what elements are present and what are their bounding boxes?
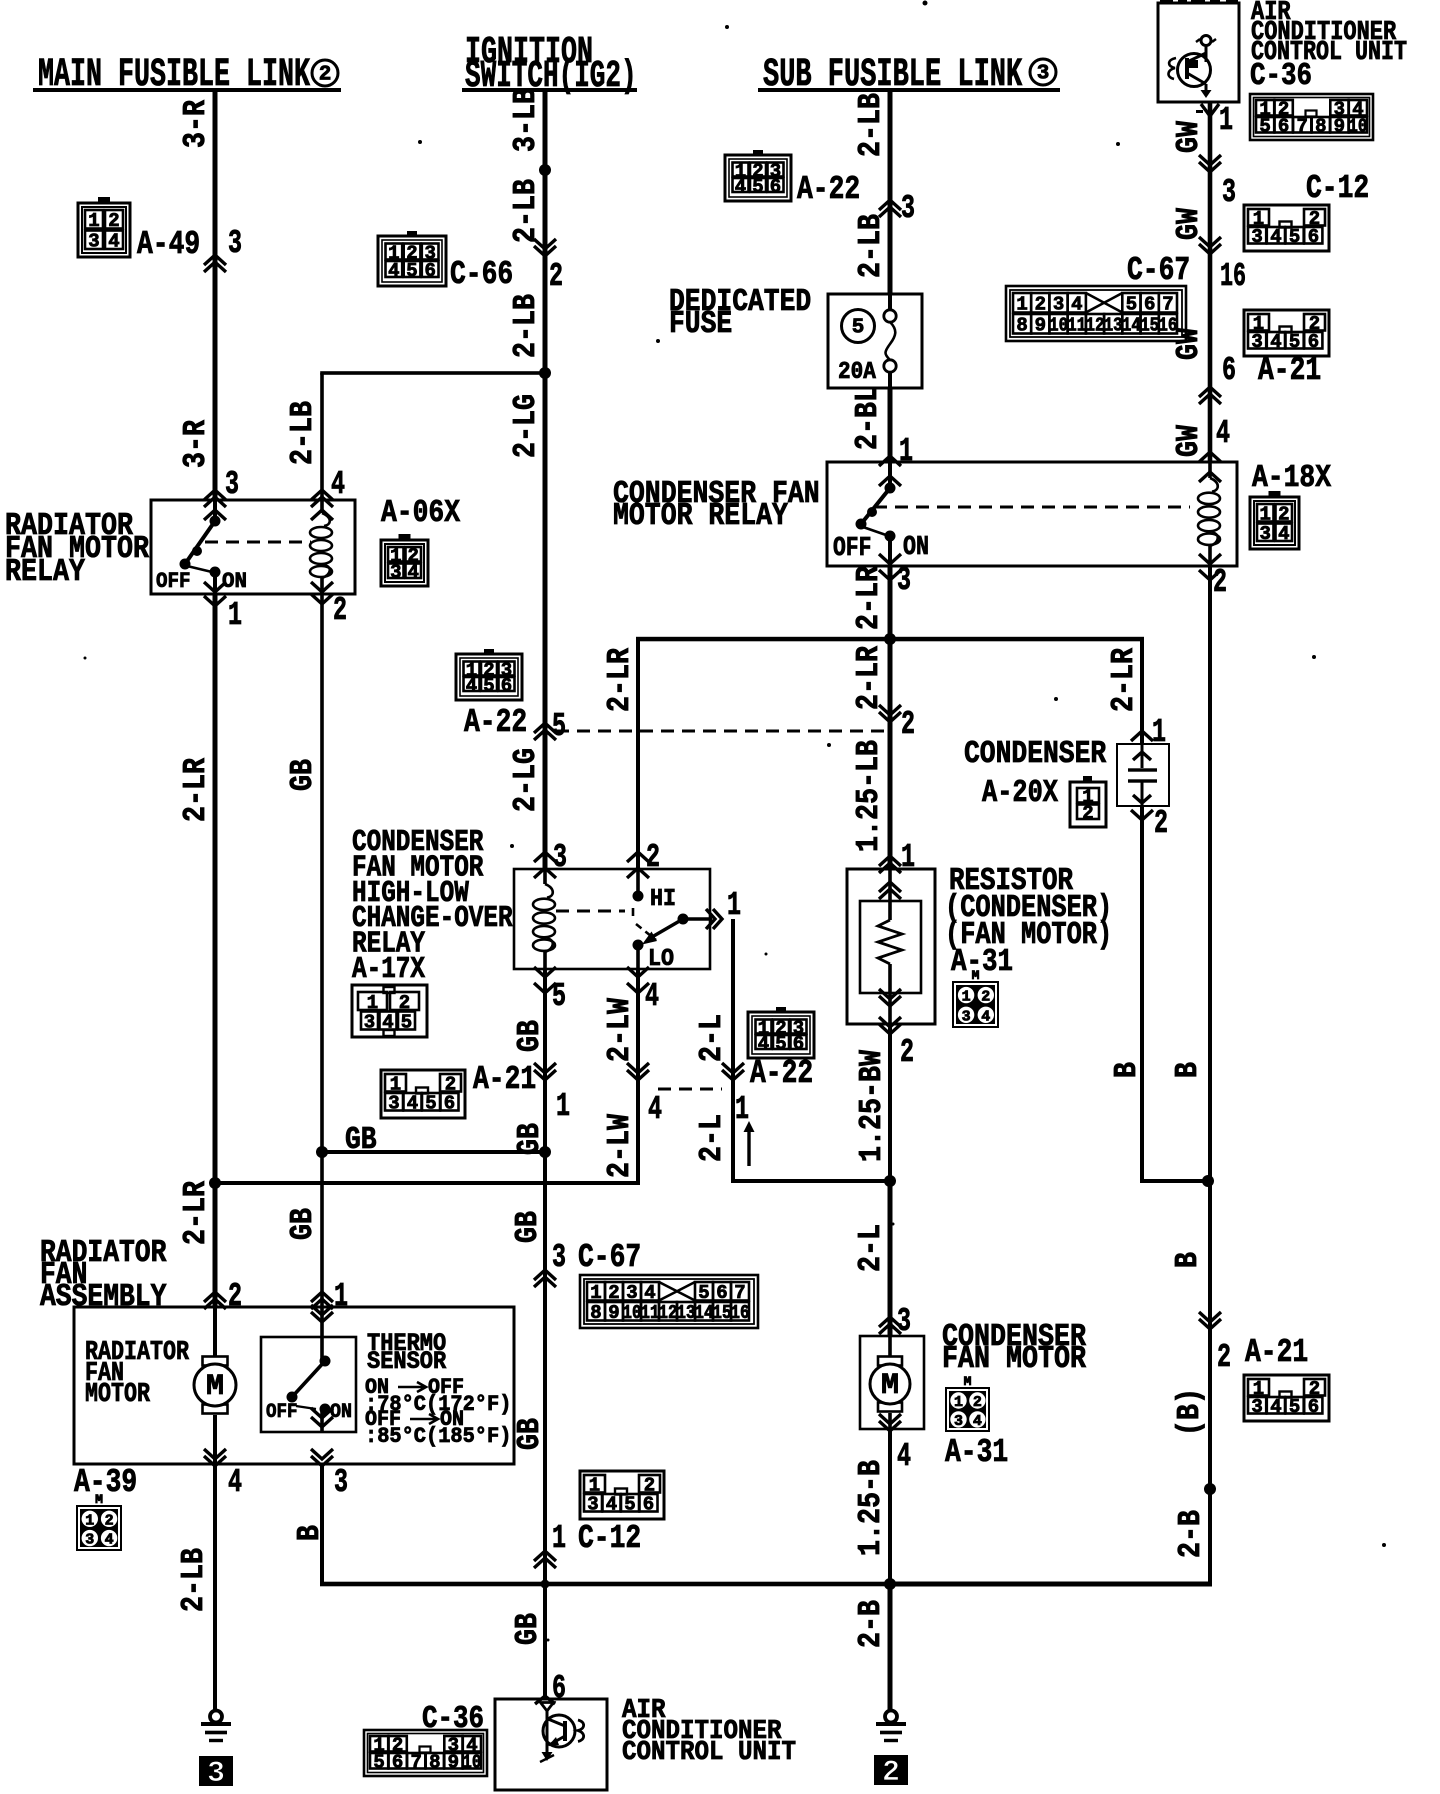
svg-text:2: 2 <box>1082 803 1093 825</box>
svg-text:4: 4 <box>981 1008 990 1025</box>
svg-text:4: 4 <box>735 176 746 198</box>
capacitor CONDENSER A-20X <box>1117 744 1169 806</box>
pin 1 high-low relay output <box>706 886 741 929</box>
svg-text:11: 11 <box>1067 315 1086 337</box>
dashed tie line A-22 pin5 to pin2 <box>556 730 884 733</box>
resistor label block <box>945 863 1112 980</box>
svg-text:8: 8 <box>429 1752 440 1774</box>
svg-text:14: 14 <box>1122 315 1141 337</box>
svg-text:16: 16 <box>1220 257 1246 295</box>
svg-text:5: 5 <box>775 1033 786 1055</box>
svg-text:12: 12 <box>659 1302 678 1324</box>
connector A-49 <box>78 197 200 263</box>
svg-text:3: 3 <box>390 562 401 584</box>
svg-text:9: 9 <box>608 1302 619 1324</box>
svg-text:A-17X: A-17X <box>352 953 426 987</box>
pin 2 at A-22 dashed tie <box>879 705 915 743</box>
wire GW from AC unit down to condenser relay pin 4 <box>1208 102 1213 462</box>
svg-text:2-LG: 2-LG <box>508 394 544 458</box>
svg-text:1: 1 <box>552 1519 566 1557</box>
pin 4 radiator fan relay <box>311 465 345 520</box>
svg-text:C-66: C-66 <box>450 255 513 293</box>
unit AIR CONDITIONER CONTROL UNIT bottom box <box>495 1699 607 1790</box>
svg-text:2: 2 <box>882 1756 900 1790</box>
svg-text:4: 4 <box>758 1033 769 1055</box>
svg-text:2-B: 2-B <box>853 1600 889 1648</box>
svg-text:MOTOR: MOTOR <box>85 1380 151 1410</box>
svg-text:3: 3 <box>962 1008 971 1025</box>
svg-text:HI: HI <box>650 886 676 913</box>
svg-text:6: 6 <box>1278 116 1289 138</box>
svg-text:B: B <box>292 1525 328 1541</box>
svg-text:2-LW: 2-LW <box>602 998 638 1062</box>
svg-text:2: 2 <box>1213 563 1227 601</box>
wire 2-LR from distribution to high-low relay pin 2 <box>636 637 1144 869</box>
junction dot B bus <box>1202 1175 1214 1187</box>
svg-text:5: 5 <box>1289 331 1300 353</box>
high-low relay label block <box>352 826 513 987</box>
svg-text:2-L: 2-L <box>694 1114 730 1162</box>
svg-text:5: 5 <box>1126 294 1137 316</box>
svg-text:13: 13 <box>677 1302 696 1324</box>
svg-text:1: 1 <box>954 1394 963 1411</box>
svg-text:C-67: C-67 <box>578 1238 641 1276</box>
node IGNITION SWITCH(IG2) title <box>465 31 637 98</box>
page reference 2 <box>874 1755 908 1785</box>
svg-text:GW: GW <box>1171 208 1207 240</box>
svg-text:GW: GW <box>1171 425 1207 457</box>
pin 6 at A-21 top <box>1199 351 1236 404</box>
svg-text:6: 6 <box>444 1093 455 1115</box>
svg-text:2-L: 2-L <box>853 1224 889 1272</box>
svg-text:5: 5 <box>852 317 865 340</box>
svg-text:4: 4 <box>645 977 659 1015</box>
svg-text:OFF: OFF <box>266 1401 298 1424</box>
connector A-17X <box>352 985 427 1037</box>
svg-text:3: 3 <box>364 1011 375 1033</box>
svg-text:4: 4 <box>228 1463 242 1501</box>
AC control unit top transistor symbol <box>1168 36 1216 99</box>
wire 2-B to ground <box>888 1584 893 1710</box>
svg-text:C-67: C-67 <box>1127 251 1190 289</box>
pin 6 air conditioner control unit <box>535 1669 566 1707</box>
svg-text:2-LR: 2-LR <box>1106 648 1142 712</box>
connector A-21 bottom <box>1244 1333 1329 1421</box>
junction dot ignition splice <box>539 164 551 176</box>
svg-text:16: 16 <box>731 1302 750 1324</box>
node SUB FUSIBLE LINK 3 title <box>763 52 1056 97</box>
thermo sensor box <box>261 1337 356 1432</box>
node MAIN FUSIBLE LINK underline <box>33 88 341 92</box>
svg-text:10: 10 <box>1049 315 1068 337</box>
wire 3-R from MAIN FUSIBLE LINK to radiator fan relay pin 3 <box>213 90 218 500</box>
svg-text:4: 4 <box>897 1437 911 1475</box>
svg-text:4: 4 <box>331 465 345 503</box>
svg-text:5: 5 <box>483 675 494 697</box>
svg-text:LO: LO <box>648 946 674 973</box>
svg-text:6: 6 <box>1308 1396 1319 1418</box>
svg-text::85°C(185°F): :85°C(185°F) <box>365 1424 511 1449</box>
svg-text:5: 5 <box>1259 116 1270 138</box>
pin 5 high-low relay <box>534 967 566 1015</box>
svg-text:3: 3 <box>1259 523 1270 545</box>
svg-text:A-06X: A-06X <box>381 495 461 531</box>
svg-text:10: 10 <box>1348 116 1367 138</box>
svg-text:3-R: 3-R <box>178 100 214 148</box>
svg-text:A-39: A-39 <box>74 1463 137 1501</box>
wire 2-LB sub fusible link down <box>888 90 893 294</box>
svg-text:B: B <box>1170 1252 1206 1268</box>
svg-text:3-LB: 3-LB <box>508 88 544 152</box>
svg-text:5: 5 <box>401 1011 412 1033</box>
svg-text:M: M <box>964 1374 972 1389</box>
svg-text:3: 3 <box>897 1302 911 1340</box>
svg-text:A-49: A-49 <box>137 225 200 263</box>
svg-text:3: 3 <box>334 1463 348 1501</box>
unit RADIATOR FAN ASSEMBLY label <box>40 1235 166 1315</box>
svg-text:6: 6 <box>501 675 512 697</box>
connector A-31 bottom <box>945 1374 1008 1471</box>
svg-text:CONDENSER: CONDENSER <box>964 736 1106 772</box>
relay CONDENSER FAN MOTOR RELAY label <box>613 476 820 534</box>
svg-text:M: M <box>972 968 980 983</box>
svg-text:GB: GB <box>345 1122 377 1158</box>
svg-text:1: 1 <box>1219 101 1233 139</box>
radiator relay dashed actuation line <box>205 541 311 544</box>
wire 2-L to condenser fan motor <box>888 1181 893 1336</box>
svg-text:GB: GB <box>510 1211 546 1243</box>
svg-text:2-B: 2-B <box>1173 1510 1209 1558</box>
pin 1 radiator fan assembly <box>311 1277 348 1315</box>
svg-text:1: 1 <box>85 1512 94 1529</box>
junction dot 2-LR branch <box>209 1177 221 1189</box>
svg-text:M: M <box>95 1492 103 1507</box>
pin 2 high-low relay <box>627 838 660 878</box>
svg-text:2: 2 <box>333 591 347 629</box>
connector A-22 right <box>748 1007 814 1092</box>
pin 3 at C-67 bottom <box>534 1238 566 1287</box>
svg-text:SENSOR: SENSOR <box>367 1347 447 1376</box>
svg-text:GB: GB <box>512 1020 548 1052</box>
svg-text:7: 7 <box>410 1752 421 1774</box>
AC control unit bottom label <box>622 1696 796 1768</box>
svg-text:6: 6 <box>392 1752 403 1774</box>
high-low relay dashed actuation <box>556 908 656 940</box>
svg-text:3: 3 <box>1251 1396 1262 1418</box>
svg-text:2: 2 <box>105 1512 114 1529</box>
svg-text:GW: GW <box>1171 121 1207 153</box>
svg-text:M: M <box>881 1369 899 1403</box>
svg-text:ON: ON <box>330 1401 352 1424</box>
junction dot 2-L node <box>884 1175 896 1187</box>
svg-text:3: 3 <box>1251 331 1262 353</box>
radiator relay switch <box>180 500 221 594</box>
svg-text:6: 6 <box>643 1494 654 1516</box>
svg-text:11: 11 <box>641 1302 660 1324</box>
svg-text:A-21: A-21 <box>473 1060 536 1098</box>
wire GB radiator relay pin 2 down <box>320 594 324 1307</box>
svg-text:3: 3 <box>901 189 915 227</box>
svg-text:C-12: C-12 <box>1306 169 1369 207</box>
pin 3 at A-22 top <box>879 189 915 227</box>
pin 3 radiator fan relay <box>204 465 239 520</box>
svg-text:3: 3 <box>88 231 99 253</box>
svg-text:OFF: OFF <box>833 534 871 564</box>
radiator relay coil on pin4-2 leg <box>310 500 332 594</box>
svg-text:13: 13 <box>1104 315 1123 337</box>
pin 2 radiator fan relay <box>311 582 347 629</box>
connector A-21 top <box>1244 310 1329 389</box>
svg-text:20A: 20A <box>838 359 876 386</box>
radiator fan motor label <box>85 1338 190 1410</box>
node SUB FUSIBLE LINK underline <box>758 88 1060 92</box>
svg-text:5: 5 <box>552 707 566 745</box>
connector C-67 top <box>1006 251 1190 341</box>
svg-text:3: 3 <box>388 1093 399 1115</box>
svg-text:C-12: C-12 <box>578 1519 641 1557</box>
svg-text:5: 5 <box>752 176 763 198</box>
svg-text:4: 4 <box>1071 294 1082 316</box>
svg-text:3: 3 <box>85 1532 94 1549</box>
svg-text:GB: GB <box>285 759 321 791</box>
junction dot on B wire <box>1204 1483 1216 1495</box>
svg-text:1.25-B: 1.25-B <box>853 1460 889 1556</box>
page reference 3 <box>199 1756 233 1786</box>
svg-text:MOTOR RELAY: MOTOR RELAY <box>613 498 788 534</box>
svg-text:2: 2 <box>319 64 332 87</box>
svg-text:1.25-BW: 1.25-BW <box>854 1050 890 1162</box>
ground right <box>885 1711 897 1723</box>
svg-text:FUSE: FUSE <box>669 306 732 342</box>
svg-text:2: 2 <box>973 1394 982 1411</box>
connector A-39 <box>74 1463 137 1551</box>
connector A-20X <box>982 775 1106 827</box>
wire GB link horizontal <box>322 1150 545 1154</box>
relay CONDENSER FAN MOTOR RELAY box <box>827 462 1237 566</box>
ground left <box>210 1711 222 1723</box>
svg-text:C-36: C-36 <box>422 1701 484 1737</box>
junction dot GB link left <box>316 1146 328 1158</box>
svg-text:3-R: 3-R <box>178 420 214 468</box>
svg-text:2-LR: 2-LR <box>178 758 214 822</box>
connector C-12 top <box>1244 169 1369 251</box>
thermo sensor switch <box>287 1305 334 1432</box>
connector A-18X <box>1250 460 1332 549</box>
junction dot 2-LB branch to A-06X <box>539 367 551 379</box>
svg-text:1.25-LB: 1.25-LB <box>851 740 887 852</box>
wire 2-L from high-low pin 1 down to condenser fan feed <box>731 919 890 1183</box>
svg-text:4: 4 <box>466 675 477 697</box>
connector A-06X <box>381 495 461 586</box>
svg-text:3: 3 <box>587 1494 598 1516</box>
svg-text:A-31: A-31 <box>945 1433 1008 1471</box>
svg-text:6: 6 <box>1308 331 1319 353</box>
svg-text:A-31: A-31 <box>951 944 1013 980</box>
svg-text:5: 5 <box>552 977 566 1015</box>
svg-text:1: 1 <box>735 1090 749 1128</box>
pin 2 condenser capacitor <box>1131 804 1168 842</box>
pin 2 resistor <box>879 1017 914 1071</box>
svg-text:A-21: A-21 <box>1258 351 1321 389</box>
pin 3 at C-12 top <box>1199 155 1236 211</box>
unit RADIATOR FAN ASSEMBLY box <box>74 1307 514 1464</box>
wire 2-LR condenser relay pin 3 down <box>888 566 893 639</box>
direction arrow on 2-L <box>747 1127 750 1166</box>
pin 4 at A-22 mid <box>627 1063 662 1128</box>
wire 2-BL fuse to condenser relay pin 1 <box>888 388 893 462</box>
svg-text:ON: ON <box>903 533 929 563</box>
pin 4 condenser fan relay <box>1199 414 1230 482</box>
svg-text:ON: ON <box>222 569 247 594</box>
svg-text:4: 4 <box>1270 226 1281 248</box>
svg-text:2: 2 <box>1035 294 1046 316</box>
wire 1.25-BW resistor to 2-L junction <box>888 1024 892 1181</box>
junction small dot at GB / B crossing <box>541 1580 550 1589</box>
svg-text:1: 1 <box>556 1087 570 1125</box>
svg-text:FAN MOTOR: FAN MOTOR <box>942 1341 1086 1377</box>
high-low relay coil <box>533 869 555 969</box>
svg-text:2-LG: 2-LG <box>508 748 544 812</box>
AC control unit bottom transistor symbol <box>540 1703 584 1763</box>
svg-text:2-LR: 2-LR <box>851 646 887 710</box>
svg-text:15: 15 <box>713 1302 732 1324</box>
svg-text:6: 6 <box>1308 226 1319 248</box>
pin 2 radiator fan assembly <box>204 1277 242 1315</box>
svg-text:3: 3 <box>228 224 242 262</box>
svg-text:5: 5 <box>624 1494 635 1516</box>
svg-text:3: 3 <box>1251 226 1262 248</box>
pin 1 condenser capacitor <box>1131 713 1166 751</box>
pin 4 radiator fan assembly <box>204 1449 242 1501</box>
svg-text:4: 4 <box>606 1494 617 1516</box>
svg-text:2: 2 <box>1217 1338 1231 1376</box>
svg-text:2: 2 <box>1154 804 1168 842</box>
svg-text:A-20X: A-20X <box>982 775 1059 811</box>
condenser fan motor label <box>942 1319 1086 1377</box>
svg-text:3: 3 <box>225 465 239 503</box>
pin 4 high-low relay <box>627 967 659 1015</box>
svg-text:2: 2 <box>108 210 119 232</box>
svg-text:2: 2 <box>901 705 915 743</box>
relay RADIATOR FAN MOTOR RELAY label <box>5 508 149 590</box>
pin 3 condenser fan motor <box>879 1302 911 1340</box>
svg-text:A-22: A-22 <box>750 1054 813 1092</box>
wire ground bus horizontal <box>320 1464 890 1586</box>
connector C-12 bottom <box>580 1471 664 1519</box>
svg-text:RELAY: RELAY <box>5 554 85 590</box>
pin 1 condenser fan relay <box>879 432 913 486</box>
svg-text:10: 10 <box>623 1302 642 1324</box>
motor RADIATOR FAN MOTOR <box>194 1307 236 1464</box>
svg-text:1: 1 <box>962 989 971 1006</box>
wire 2-LB branch from ignition to radiator relay pin 4 <box>320 371 545 500</box>
pin 5 at A-22 <box>534 707 566 745</box>
pin 1 at A-22 right <box>722 1063 749 1128</box>
svg-text:5: 5 <box>406 260 417 282</box>
svg-text:A-22: A-22 <box>797 170 860 208</box>
connector C-66 <box>378 231 513 293</box>
condenser relay switch <box>856 462 896 566</box>
svg-text:2-LR: 2-LR <box>851 566 887 630</box>
pin 1 at C-12 bottom <box>534 1519 641 1568</box>
svg-text:6: 6 <box>1144 294 1155 316</box>
relay RADIATOR FAN MOTOR RELAY box <box>151 500 355 594</box>
svg-text:10: 10 <box>462 1752 481 1774</box>
svg-text:1: 1 <box>1016 294 1027 316</box>
svg-text:8: 8 <box>1016 315 1027 337</box>
svg-text:3: 3 <box>552 1238 566 1276</box>
svg-text:3: 3 <box>1037 63 1050 86</box>
connector A-22 mid <box>456 649 527 741</box>
relay CONDENSER FAN MOTOR HIGH-LOW CHANGE-OVER RELAY box <box>514 869 710 969</box>
svg-text:5: 5 <box>373 1752 384 1774</box>
condenser relay coil <box>1198 462 1220 566</box>
svg-text:4: 4 <box>388 260 399 282</box>
svg-text:GB: GB <box>510 1613 546 1645</box>
svg-text:B: B <box>1170 1062 1206 1078</box>
svg-text:GB: GB <box>512 1418 548 1450</box>
svg-text:4: 4 <box>1216 414 1230 452</box>
svg-text:5: 5 <box>1289 1396 1300 1418</box>
connector C-36 bottom <box>364 1701 487 1776</box>
svg-text:2: 2 <box>646 838 660 876</box>
junction dot GB link right <box>539 1146 551 1158</box>
high-low relay HI-LO switch <box>633 869 713 969</box>
svg-text:6: 6 <box>770 176 781 198</box>
fuse 20A dedicated fuse <box>828 294 922 388</box>
wire 2-LR to radiator fan assembly pin 2 <box>213 1183 218 1307</box>
svg-text:9: 9 <box>448 1752 459 1774</box>
thermo sensor temperatures <box>365 1375 511 1449</box>
svg-text:OFF: OFF <box>156 569 191 594</box>
resistor (condenser fan motor) A-31 <box>847 869 935 1024</box>
svg-text:ASSEMBLY: ASSEMBLY <box>40 1279 166 1315</box>
svg-text:14: 14 <box>695 1302 714 1324</box>
svg-text:4: 4 <box>407 1093 418 1115</box>
svg-text:5: 5 <box>1289 226 1300 248</box>
pin 3 condenser fan relay <box>879 554 911 599</box>
wire B condenser relay pin 2 down to ground bus <box>890 566 1212 1587</box>
svg-text:3: 3 <box>1053 294 1064 316</box>
svg-text:A-21: A-21 <box>1245 1333 1308 1371</box>
svg-text:3: 3 <box>1222 173 1236 211</box>
svg-text:4: 4 <box>1270 1396 1281 1418</box>
connector C-36 top <box>1250 94 1373 140</box>
svg-text:A-22: A-22 <box>464 703 527 741</box>
pin 4 condenser fan motor <box>879 1414 911 1475</box>
svg-text:(B): (B) <box>1172 1388 1208 1436</box>
condenser relay dashed actuation <box>874 506 1190 509</box>
svg-text:8: 8 <box>1315 116 1326 138</box>
svg-text:6: 6 <box>424 260 435 282</box>
svg-text:3: 3 <box>207 1757 225 1791</box>
pin 2 condenser fan relay <box>1199 554 1227 601</box>
svg-text:3: 3 <box>897 561 911 599</box>
svg-text:2-LB: 2-LB <box>508 294 544 358</box>
svg-text:6: 6 <box>1222 351 1236 389</box>
svg-text:7: 7 <box>1296 116 1307 138</box>
svg-text:2-LB: 2-LB <box>508 179 544 243</box>
svg-text:15: 15 <box>1140 315 1159 337</box>
junction dot 2-LR distribution <box>884 633 896 645</box>
svg-text:12: 12 <box>1086 315 1105 337</box>
svg-text:3: 3 <box>954 1413 963 1430</box>
motor CONDENSER FAN MOTOR <box>860 1336 924 1429</box>
wire GB high-low pin 5 down <box>543 969 547 1699</box>
connector A-22 top <box>725 150 860 208</box>
svg-text:4: 4 <box>407 562 418 584</box>
pin 2 at C-66 <box>534 239 563 295</box>
